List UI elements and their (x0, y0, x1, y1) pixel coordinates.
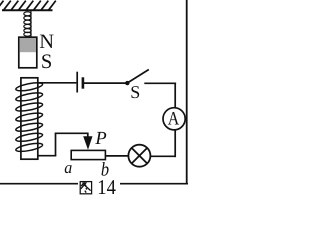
wire battery to switch (84, 82, 126, 84)
wire lamp to rheostat b terminal (106, 155, 129, 157)
svg-text:14: 14 (97, 175, 116, 198)
wire corner to lamp (150, 155, 176, 157)
ceiling (0, 1, 56, 11)
svg-text:P: P (94, 129, 106, 149)
switch S (125, 70, 149, 86)
wire ammeter to bottom corner (174, 130, 176, 157)
wire right side down to ammeter (174, 83, 176, 109)
wire slider arm vertical (55, 133, 57, 155)
lamp (128, 145, 150, 167)
wire coil top to battery (38, 82, 77, 84)
magnet (19, 37, 37, 68)
svg-text:S: S (130, 82, 140, 102)
caption label "图 14" (Figure 14) (78, 180, 120, 197)
svg-text:A: A (168, 109, 180, 130)
coil L (solenoid) (15, 78, 43, 159)
svg-text:a: a (64, 158, 72, 177)
battery (77, 72, 83, 93)
svg-text:S: S (41, 51, 52, 73)
wire coil bottom to slider arm (38, 155, 57, 157)
rheostat R (slide) (71, 150, 105, 159)
rheostat slider arrow P (83, 133, 92, 150)
wire slider arm horizontal (55, 132, 88, 134)
wire switch to right corner (144, 82, 176, 84)
ammeter A (163, 108, 185, 130)
spring (24, 10, 31, 36)
